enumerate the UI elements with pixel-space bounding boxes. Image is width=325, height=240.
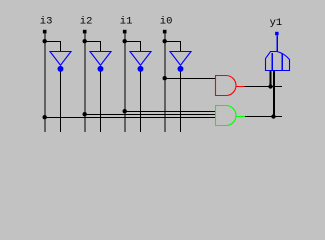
OR gate G3 inner input lead B [281, 54, 283, 71]
wire inverter U2 output [100, 72, 102, 133]
svg-text:i1: i1 [120, 15, 133, 27]
wire i2 inverter feed vertical [100, 42, 102, 52]
wire G1 output stub (red) [236, 86, 245, 88]
wire OR gate input A vertical [270, 71, 272, 87]
junction i0 to AND gate tap [163, 76, 167, 80]
junction i1 bus tap [123, 109, 127, 113]
junction i3 bus tap [43, 115, 47, 119]
junction i2 bus tap [83, 112, 87, 116]
wire i3 inverter feed vertical [60, 42, 62, 52]
wire i1 vertical [124, 33, 126, 132]
input pin i2 [83, 30, 87, 34]
inverter U2 bubble [98, 66, 104, 72]
wire inverter U1 output [140, 72, 142, 133]
wire inverter U0 output [180, 72, 182, 133]
wire i3 inverter feed horizontal [45, 41, 61, 43]
wire i0 to red AND gate input [165, 78, 216, 80]
wire G3 output stub (blue) [276, 35, 278, 52]
wire i3 vertical [44, 33, 46, 132]
inverter U1 bubble [138, 66, 144, 72]
inverter U0 bubble [178, 66, 184, 72]
wire G2 output to OR gate [245, 116, 282, 118]
input pin i0 [163, 30, 167, 34]
svg-text:i3: i3 [40, 15, 53, 27]
input pin i3 [43, 30, 47, 34]
junction i3 inverter tap [43, 39, 47, 43]
wire G1 output to OR gate [245, 86, 283, 88]
junction OR input A to G1 output [268, 84, 272, 88]
svg-text:i2: i2 [80, 15, 93, 27]
wire i0 vertical [164, 33, 166, 132]
inverter U3 bubble [58, 66, 64, 72]
inverter U1 triangle [130, 52, 151, 66]
wire bus i3 to green AND gate [45, 117, 216, 119]
input pin i1 [123, 30, 127, 34]
junction i2 inverter tap [83, 39, 87, 43]
junction i1 inverter tap [123, 39, 127, 43]
inverter U3 triangle [50, 52, 71, 66]
wire OR gate input B vertical [273, 71, 275, 117]
OR gate G3 inner input lead A [271, 53, 273, 70]
wire i2 inverter feed horizontal [85, 41, 101, 43]
inverter U2 triangle [90, 52, 111, 66]
OR gate G3 (blue) body [266, 52, 290, 71]
wire G2 output stub (green) [236, 116, 246, 118]
svg-text:i0: i0 [160, 15, 173, 27]
wire bus i1 to green AND gate [125, 111, 216, 113]
wire inverter U3 output [60, 72, 62, 133]
inverter U0 triangle [170, 52, 191, 66]
AND gate G1 (red) body [216, 76, 237, 96]
junction OR input B to G2 output [271, 114, 275, 118]
junction i0 inverter tap [163, 39, 167, 43]
wire bus i2 to green AND gate [85, 114, 216, 116]
svg-text:y1: y1 [270, 17, 283, 29]
wire i1 inverter feed horizontal [125, 41, 141, 43]
wire i2 vertical [84, 33, 86, 132]
AND gate G2 (green) body [216, 106, 237, 126]
output pin y1 [275, 32, 279, 36]
wire i0 inverter feed vertical [180, 42, 182, 52]
wire i0 inverter feed horizontal [165, 41, 181, 43]
wire i1 inverter feed vertical [140, 42, 142, 52]
